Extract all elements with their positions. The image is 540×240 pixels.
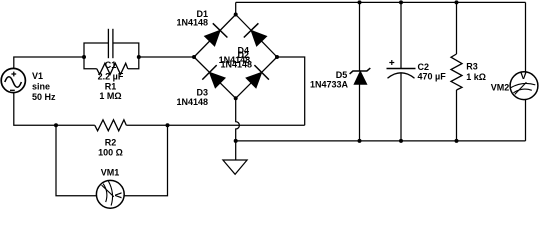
svg-text:1N4148: 1N4148: [176, 97, 208, 107]
diode D1: [205, 23, 228, 46]
svg-text:1N4148: 1N4148: [176, 18, 208, 28]
wire node C to R2: [56, 124, 95, 126]
wire R1 branch right: [128, 57, 139, 69]
svg-text:2.2 µF: 2.2 µF: [98, 71, 124, 81]
wire bridge bottom vertex with hop over R2 rail: [236, 98, 240, 141]
capacitor C1: [108, 29, 113, 58]
svg-text:V1: V1: [32, 71, 43, 81]
svg-text:R2: R2: [105, 138, 117, 148]
wire R3 bottom lead: [456, 90, 458, 141]
svg-text:VM2: VM2: [491, 83, 510, 93]
svg-text:1 MΩ: 1 MΩ: [99, 91, 121, 101]
svg-text:C1: C1: [105, 60, 117, 70]
wire node C down to VM1 left: [56, 125, 96, 196]
svg-text:50 Hz: 50 Hz: [32, 92, 56, 102]
wire R3 top lead: [456, 2, 458, 54]
capacitor C2 polarized: [387, 60, 416, 78]
zener diode D5: [350, 68, 371, 84]
diode D2: [244, 23, 267, 46]
svg-text:100 Ω: 100 Ω: [98, 148, 123, 158]
node D5 top: [358, 0, 362, 4]
voltmeter VM1 rotated 90: [96, 180, 124, 208]
node ground junction: [234, 139, 238, 143]
node C2 bottom: [399, 139, 403, 143]
svg-text:VM1: VM1: [101, 167, 120, 177]
diode D3: [202, 65, 225, 88]
svg-text:R1: R1: [105, 82, 117, 92]
bridge edge wire B-L: [194, 57, 236, 98]
voltage source V1: [1, 68, 25, 92]
bottom rail: [236, 140, 526, 142]
svg-text:D3: D3: [196, 87, 208, 97]
bridge edge wire T-R: [236, 15, 277, 58]
svg-text:V: V: [520, 71, 527, 82]
svg-text:sine: sine: [32, 81, 50, 91]
node bridge bottom: [234, 96, 238, 100]
wire D5 top lead: [359, 2, 361, 71]
node B: [137, 55, 141, 59]
node bridge left: [192, 55, 196, 59]
wire VM1 right up to node D: [124, 125, 167, 196]
wire node B to bridge left vertex: [139, 56, 194, 58]
svg-text:470 µF: 470 µF: [418, 72, 447, 82]
wire node D to corner: [168, 124, 305, 126]
node R3 top: [455, 0, 459, 4]
wire C2 bottom lead: [400, 73, 402, 141]
svg-text:1N4733A: 1N4733A: [310, 79, 349, 89]
wire C1 branch left: [84, 43, 108, 57]
wire bridge top vertex to top rail: [235, 2, 237, 14]
bridge edge wire L-T: [194, 15, 236, 58]
wire V1 bottom to node C: [14, 92, 56, 125]
node R3 bottom: [455, 139, 459, 143]
wire V1 top to node A: [14, 57, 84, 69]
svg-text:1N4148: 1N4148: [221, 60, 253, 70]
node D5 bottom: [358, 139, 362, 143]
resistor R2: [95, 120, 127, 131]
ground: [223, 160, 247, 174]
voltmeter VM2: [510, 71, 538, 100]
wire R1 branch left: [84, 57, 97, 69]
wire C1 branch right: [113, 43, 139, 57]
node C: [54, 123, 58, 127]
wire R2 to node D: [126, 124, 167, 126]
node bridge right: [275, 55, 279, 59]
svg-text:V: V: [112, 192, 123, 199]
bridge edge wire B-R: [236, 57, 277, 98]
node C2 top: [399, 0, 403, 4]
wire ground stem: [235, 141, 237, 160]
wire VM2 bottom lead: [525, 100, 527, 141]
node bridge top: [234, 13, 238, 17]
diode D4: [246, 65, 269, 88]
wire D5 bottom lead: [359, 84, 361, 141]
top rail: [236, 1, 526, 3]
wire bridge right vertex down to R2 rail: [277, 57, 305, 125]
wire C2 top lead: [400, 2, 402, 68]
resistor R1: [97, 63, 128, 74]
wire VM2 top lead: [525, 2, 527, 72]
node A: [82, 55, 86, 59]
node D: [166, 123, 170, 127]
svg-text:1 kΩ: 1 kΩ: [466, 72, 486, 82]
svg-text:R3: R3: [466, 62, 478, 72]
resistor R3: [451, 54, 462, 90]
